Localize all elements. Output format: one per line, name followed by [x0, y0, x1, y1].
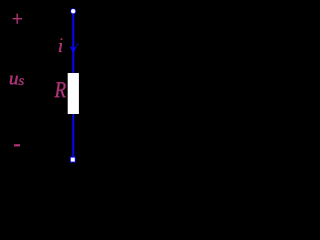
- wire: top segment (top node to resistor): [72, 11, 74, 74]
- arrow speck: [77, 44, 79, 46]
- node: top terminal (dot): [70, 8, 76, 14]
- wire: bottom segment (resistor to bottom terminal): [72, 113, 74, 158]
- label R (resistance value): [54, 82, 65, 97]
- label us (source voltage): [10, 76, 24, 85]
- label - (source polarity, negative): [14, 144, 20, 146]
- current arrow i (arrowhead on wire, pointing down): [70, 45, 78, 55]
- label + (source polarity, positive): [13, 14, 22, 24]
- resistor R (body): [68, 73, 79, 114]
- label i (current): [59, 38, 62, 52]
- node: bottom terminal (square): [70, 157, 76, 163]
